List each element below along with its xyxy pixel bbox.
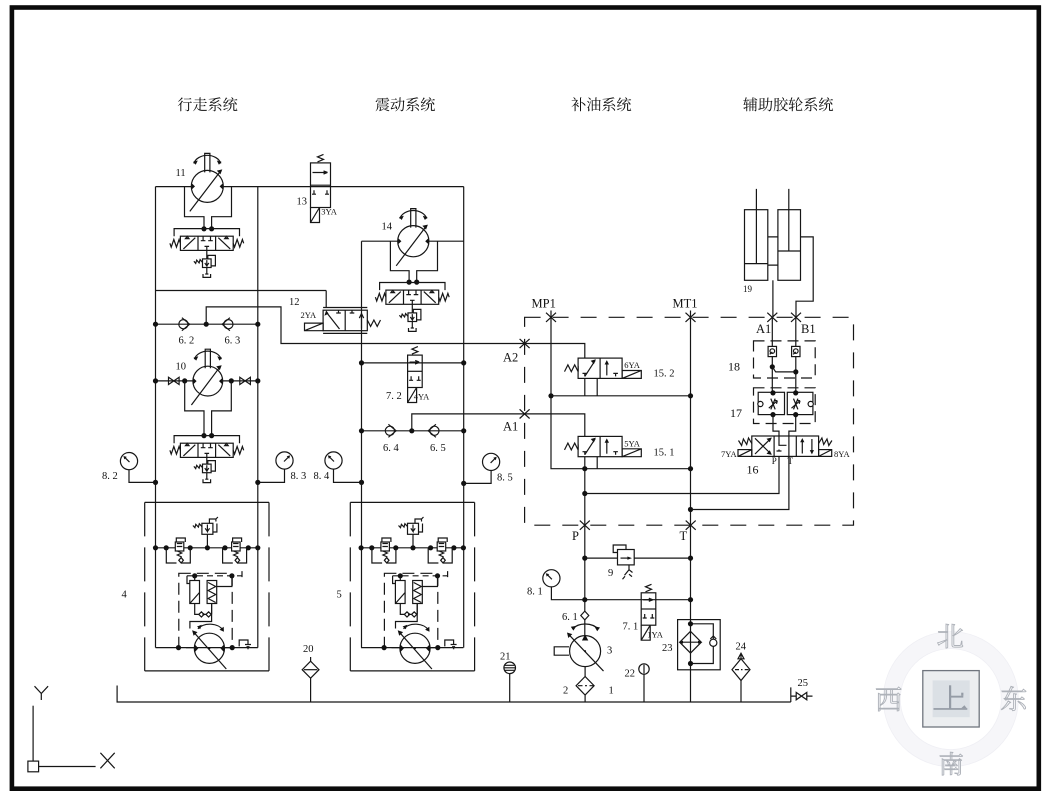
svg-text:3YA: 3YA	[321, 206, 337, 216]
wire	[156, 647, 258, 649]
motor 11 housing	[185, 187, 232, 229]
junction	[582, 556, 587, 561]
compass glyph up	[934, 685, 968, 710]
wire	[206, 251, 208, 259]
compass ring	[892, 640, 1010, 758]
junction	[255, 378, 260, 383]
svg-text:5YA: 5YA	[624, 439, 640, 449]
wire	[206, 268, 208, 275]
relief valve under motor 10	[194, 461, 216, 473]
junction	[359, 428, 364, 433]
svg-text:6. 4: 6. 4	[383, 443, 400, 454]
svg-text:6. 2: 6. 2	[179, 336, 195, 347]
svg-text:4YA: 4YA	[414, 392, 430, 402]
filter 23	[678, 620, 721, 670]
junction	[793, 390, 798, 395]
servo enclosure in unit 5	[384, 573, 437, 647]
junction	[153, 545, 158, 550]
svg-text:A2: A2	[503, 351, 518, 365]
junction	[688, 661, 693, 666]
junction	[204, 322, 209, 327]
breather 21	[509, 674, 511, 703]
junction	[359, 545, 364, 550]
check valve 6.1	[581, 611, 589, 620]
junction	[770, 364, 775, 369]
svg-text:10: 10	[176, 362, 187, 373]
pressure gauge 8.3	[276, 452, 293, 469]
junction	[461, 360, 466, 365]
junction	[770, 390, 775, 395]
flow arrow	[415, 361, 420, 364]
pilot check block 18	[754, 341, 816, 378]
pilot line in unit 5	[396, 604, 418, 629]
pressure gauge 8.1	[543, 570, 560, 587]
wire	[129, 470, 156, 483]
junction	[205, 545, 210, 550]
shutoff valve left of motor 10	[169, 377, 180, 384]
svg-text:A1: A1	[503, 420, 518, 434]
port A2	[520, 339, 530, 348]
svg-text:24: 24	[736, 642, 747, 653]
compass east	[1001, 686, 1026, 710]
wire 17 to 16 T side	[789, 415, 796, 436]
junction	[230, 645, 235, 650]
wire P-T via valve 9	[585, 557, 691, 559]
svg-text:21: 21	[500, 652, 511, 663]
junction	[435, 573, 440, 578]
level gauge 22	[643, 674, 645, 702]
wire vibration right rail	[463, 187, 465, 648]
title travel system	[178, 97, 238, 111]
wire MT1/T line	[690, 311, 692, 703]
junction	[770, 412, 775, 417]
solenoid valve 16	[738, 436, 832, 456]
pressure valve 9	[613, 545, 634, 579]
svg-text:11: 11	[176, 168, 186, 179]
svg-text:8YA: 8YA	[834, 449, 850, 459]
wire MP1 line	[551, 311, 691, 469]
cylinder 19 left	[745, 210, 768, 281]
junction	[582, 597, 587, 602]
junction	[688, 507, 693, 512]
svg-text:12: 12	[289, 297, 300, 308]
svg-text:6. 3: 6. 3	[225, 336, 241, 347]
case drain in unit 5	[445, 640, 457, 649]
solenoid valve 7.2	[408, 347, 423, 403]
wire	[206, 534, 208, 548]
relief valve under motor 14	[399, 309, 420, 321]
system boundary dashed box	[525, 317, 854, 525]
directional valve under motor 11	[170, 229, 244, 251]
junction	[428, 545, 433, 550]
svg-text:2: 2	[563, 686, 568, 697]
wire 17 to 16 P side	[773, 415, 779, 436]
wire	[156, 380, 258, 382]
throttle check block 17	[754, 388, 816, 424]
compass west	[876, 687, 901, 711]
svg-text:25: 25	[798, 678, 809, 689]
svg-text:A1: A1	[756, 322, 771, 336]
directional valve under motor 14	[375, 283, 449, 305]
junction	[688, 621, 693, 626]
junction	[209, 226, 214, 231]
svg-text:T: T	[680, 529, 688, 543]
svg-text:9: 9	[608, 568, 613, 579]
servo enclosure in unit 4	[179, 573, 232, 647]
UCS icon Y axis	[35, 686, 49, 700]
hydraulic motor 10	[191, 349, 222, 405]
throttle check left	[758, 392, 785, 414]
junction	[582, 491, 587, 496]
svg-text:1YA: 1YA	[647, 630, 663, 640]
junction	[201, 226, 206, 231]
wire motor 14 line	[362, 240, 464, 242]
svg-text:14: 14	[382, 222, 393, 233]
junction	[548, 393, 553, 398]
throttle check right	[787, 392, 813, 414]
junction	[461, 481, 466, 486]
compass south	[940, 752, 963, 775]
junction	[201, 433, 206, 438]
wire	[258, 469, 285, 482]
port B1	[791, 313, 801, 322]
wire	[411, 322, 413, 329]
junction	[153, 480, 158, 485]
filter 2	[584, 667, 586, 702]
port MP1	[546, 313, 556, 322]
junction	[255, 545, 260, 550]
motor 10 housing	[185, 381, 232, 436]
cylinder 19 right	[778, 210, 801, 281]
wire	[361, 547, 463, 549]
junction	[229, 378, 234, 383]
junction	[229, 573, 234, 578]
svg-text:8. 2: 8. 2	[102, 471, 118, 482]
wire valve 16 P port	[585, 456, 779, 493]
wire P upper	[584, 469, 586, 526]
junction	[255, 322, 260, 327]
solenoid valve 15.1	[565, 436, 642, 456]
UCS icon origin box	[28, 761, 39, 772]
wire	[411, 304, 413, 313]
title auxiliary wheel system	[743, 97, 833, 111]
svg-text:22: 22	[625, 669, 636, 680]
svg-text:8. 4: 8. 4	[314, 471, 331, 482]
port P	[580, 521, 590, 530]
junction	[153, 378, 158, 383]
junction	[176, 645, 181, 650]
wire travel left rail	[155, 187, 157, 648]
wire vibration left rail	[361, 241, 363, 647]
svg-text:MP1: MP1	[532, 297, 556, 311]
pressure gauge 8.4	[325, 452, 342, 469]
junction	[382, 645, 387, 650]
junction	[793, 412, 798, 417]
check valve 6.3	[222, 318, 233, 331]
junction	[192, 573, 197, 578]
junction	[793, 369, 798, 374]
pilot check valve left	[768, 346, 776, 356]
wire	[156, 323, 258, 325]
title vibration system	[376, 97, 435, 111]
wire to valve 12 pilot	[156, 291, 327, 308]
svg-text:5: 5	[337, 590, 342, 601]
svg-text:8. 3: 8. 3	[291, 471, 307, 482]
junction	[182, 378, 187, 383]
svg-text:15. 2: 15. 2	[654, 369, 675, 380]
junction	[393, 545, 398, 550]
svg-text:20: 20	[303, 644, 314, 655]
junction	[451, 545, 456, 550]
svg-text:2YA: 2YA	[301, 310, 317, 320]
junction	[582, 466, 587, 471]
wire A1 to valve 15.1	[525, 414, 585, 437]
junction	[435, 645, 440, 650]
junction	[688, 466, 693, 471]
junction	[398, 573, 403, 578]
port MT1	[686, 313, 696, 322]
wire	[412, 534, 414, 548]
motor 14 housing	[390, 241, 437, 282]
svg-text:7YA: 7YA	[721, 449, 737, 459]
wire A1 to cylinder	[772, 280, 774, 317]
wire tank line	[117, 686, 791, 703]
svg-text:7. 1: 7. 1	[623, 622, 639, 633]
svg-text:P: P	[572, 529, 579, 543]
hydraulic motor 11	[190, 153, 224, 211]
pilot line in unit 4	[190, 604, 212, 629]
junction	[369, 545, 374, 550]
junction	[246, 545, 251, 550]
junction	[409, 428, 414, 433]
check valve 6.4	[385, 424, 396, 437]
drain valve 25	[791, 695, 813, 697]
junction	[164, 545, 169, 550]
wire valve 16 T port	[691, 456, 789, 509]
pilot check valve right	[792, 346, 800, 356]
junction	[359, 360, 364, 365]
wire A line through 18	[771, 317, 773, 393]
junction	[407, 280, 412, 285]
junction	[222, 545, 227, 550]
svg-text:18: 18	[728, 360, 740, 374]
check valve 6.2	[179, 318, 190, 331]
junction	[688, 556, 693, 561]
junction	[410, 545, 415, 550]
port A1 left	[520, 409, 530, 418]
pump unit 5 dashed enclosure	[350, 502, 474, 671]
wire B1 to cylinder	[796, 237, 813, 317]
svg-text:P: P	[772, 456, 777, 466]
wire travel right rail	[257, 187, 259, 648]
junction	[688, 393, 693, 398]
wire	[361, 647, 463, 649]
svg-text:7. 2: 7. 2	[386, 391, 402, 402]
junction	[209, 433, 214, 438]
relief valve in unit 4	[193, 517, 218, 534]
pump unit 4 dashed enclosure	[145, 502, 269, 671]
compass square	[923, 671, 979, 727]
variable pump 5	[398, 624, 432, 669]
compensator valve in unit 4	[166, 538, 190, 563]
pump 3	[554, 624, 603, 671]
displacement control valve in unit 4	[187, 571, 242, 603]
relief valve under motor 11	[194, 255, 216, 267]
cylinder yoke	[768, 237, 778, 265]
wire A2 to valve 15.2	[525, 344, 585, 359]
port T	[686, 521, 696, 530]
solenoid valve 12	[305, 308, 381, 334]
UCS icon X axis	[100, 753, 114, 769]
svg-text:MT1: MT1	[673, 297, 698, 311]
svg-text:3: 3	[607, 646, 612, 657]
svg-text:6YA: 6YA	[624, 360, 640, 370]
servo check valves in unit 4	[195, 604, 212, 618]
compensator valve in unit 5	[428, 538, 452, 563]
port A1	[767, 313, 777, 322]
wire valve 15.2 drains	[585, 378, 597, 395]
case drain in unit 4	[239, 640, 251, 649]
junction	[688, 597, 693, 602]
wire A2 line	[206, 307, 524, 344]
svg-text:15. 1: 15. 1	[654, 448, 675, 459]
svg-text:19: 19	[743, 284, 753, 294]
svg-text:8. 1: 8. 1	[527, 587, 543, 598]
directional valve under motor 10	[170, 436, 244, 458]
junction	[414, 280, 419, 285]
pressure gauge 8.5	[483, 453, 500, 470]
svg-text:6. 5: 6. 5	[430, 443, 446, 454]
wire valve 15 drain header	[551, 395, 691, 397]
variable pump 4	[192, 624, 226, 669]
wire pilot crossover	[772, 367, 796, 372]
svg-text:17: 17	[730, 406, 742, 420]
wire B line through 18	[795, 317, 797, 393]
wire	[464, 471, 491, 484]
junction	[188, 545, 193, 550]
strainer 20	[310, 657, 312, 702]
svg-text:23: 23	[662, 643, 673, 654]
wire	[551, 587, 584, 600]
junction	[461, 545, 466, 550]
junction	[153, 322, 158, 327]
wire A1 line	[412, 414, 525, 431]
title oil replenishing system	[572, 97, 632, 111]
shutoff valve right of motor 10	[240, 377, 251, 384]
solenoid valve 13	[311, 154, 331, 222]
svg-text:4: 4	[122, 590, 128, 601]
tank symbol	[203, 274, 211, 277]
compass north	[938, 624, 963, 648]
junction	[461, 428, 466, 433]
svg-text:1: 1	[609, 686, 614, 697]
wire	[362, 362, 464, 364]
wire valve 15.1 drains	[585, 457, 597, 469]
wire	[156, 547, 258, 549]
junction	[359, 480, 364, 485]
air filter 24	[740, 681, 742, 703]
displacement control valve in unit 5	[393, 571, 448, 603]
solenoid valve 7.1	[641, 584, 656, 640]
compensator valve in unit 5	[372, 538, 396, 563]
wire	[206, 458, 208, 465]
svg-text:13: 13	[297, 197, 308, 208]
svg-text:16: 16	[747, 463, 759, 477]
solenoid valve 15.2	[565, 358, 642, 378]
svg-text:6. 1: 6. 1	[562, 612, 578, 623]
relief valve in unit 5	[399, 517, 424, 534]
wire	[334, 469, 362, 482]
svg-text:8. 5: 8. 5	[497, 473, 513, 484]
tank symbol	[203, 479, 211, 482]
pressure gauge 8.2	[120, 453, 137, 470]
wire	[206, 473, 208, 480]
wire	[362, 430, 464, 432]
tank symbol	[409, 328, 417, 331]
servo check valves in unit 5	[400, 604, 417, 618]
svg-text:B1: B1	[801, 322, 816, 336]
hydraulic motor 14	[396, 209, 429, 266]
wire P lower	[584, 525, 586, 635]
compensator valve in unit 4	[223, 538, 247, 563]
wire main top line	[156, 186, 464, 188]
check valve 6.5	[428, 424, 439, 437]
junction	[255, 480, 260, 485]
wire to valve 7.1	[585, 599, 691, 601]
